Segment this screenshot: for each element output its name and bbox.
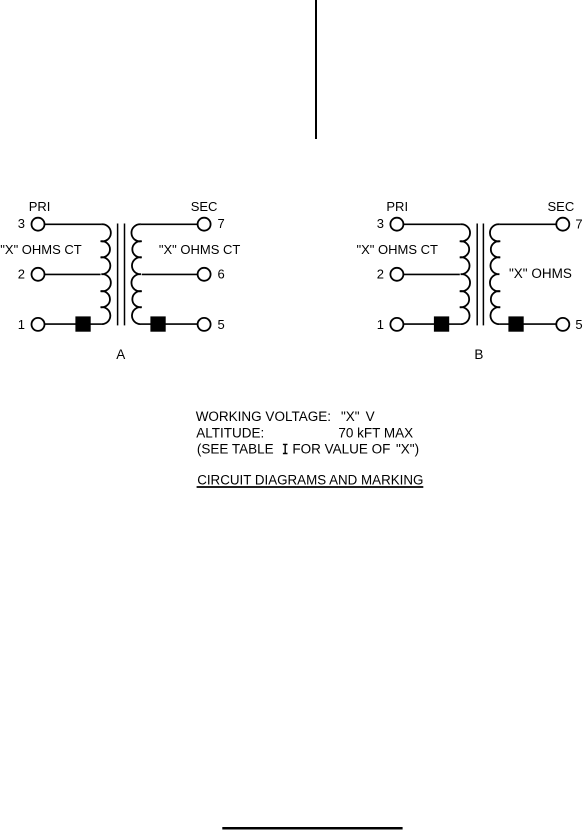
svg-text:"X" OHMS CT: "X" OHMS CT <box>357 242 439 257</box>
svg-text:PRI: PRI <box>29 199 51 214</box>
svg-text:5: 5 <box>218 317 225 332</box>
polarity mark secondary (B) <box>508 316 523 331</box>
wire pin3 to primary winding (B) <box>403 223 460 225</box>
terminal 1 (A) <box>32 318 45 331</box>
terminal 5 (A) <box>198 318 211 331</box>
polarity mark primary (A) <box>75 316 90 331</box>
core line 2 (B) <box>482 224 484 326</box>
secondary winding L2 (A) <box>131 224 141 324</box>
wire polarity mark to pin5 (A) <box>165 323 198 325</box>
terminal 1 (B) <box>390 318 403 331</box>
terminal 2 (A) <box>32 268 45 281</box>
svg-text:PRI: PRI <box>386 199 408 214</box>
wire polarity mark to primary winding (A) <box>90 323 102 325</box>
terminal 2 (B) <box>390 268 403 281</box>
wire secondary winding to polarity mark (B) <box>499 323 510 325</box>
svg-text:"X" OHMS CT: "X" OHMS CT <box>159 242 241 257</box>
terminal 3 (B) <box>390 218 403 231</box>
wire secondary winding to pin7 (A) <box>141 223 197 225</box>
svg-text:SEC: SEC <box>548 199 575 214</box>
svg-text:3: 3 <box>377 216 384 231</box>
svg-text:"X": "X" <box>341 409 360 424</box>
primary winding L1 (B) <box>460 224 470 324</box>
core line 2 (A) <box>124 224 126 326</box>
wire pin3 to primary winding (A) <box>45 223 102 225</box>
terminal 7 (B) <box>556 218 569 231</box>
secondary winding L2 (B) <box>490 224 500 324</box>
svg-text:6: 6 <box>218 267 225 282</box>
svg-text:2: 2 <box>18 267 25 282</box>
svg-text:1: 1 <box>18 317 25 332</box>
svg-text:7: 7 <box>575 217 582 232</box>
svg-text:CIRCUIT DIAGRAMS AND MARKING: CIRCUIT DIAGRAMS AND MARKING <box>197 473 423 488</box>
svg-text:"X" OHMS: "X" OHMS <box>509 266 572 281</box>
wire secondary CT to pin6 (A) <box>142 273 198 275</box>
svg-text:"X"): "X") <box>396 442 419 457</box>
svg-text:7: 7 <box>218 216 225 231</box>
svg-text:1: 1 <box>377 317 384 332</box>
svg-text:5: 5 <box>575 317 582 332</box>
svg-text:WORKING VOLTAGE:: WORKING VOLTAGE: <box>196 409 331 424</box>
polarity mark primary (B) <box>434 316 449 331</box>
title underline <box>197 486 424 488</box>
svg-text:(SEE TABLE: (SEE TABLE <box>197 442 274 457</box>
polarity mark secondary (A) <box>150 316 165 331</box>
svg-text:A: A <box>116 347 125 362</box>
core line 1 (B) <box>476 224 478 326</box>
svg-text:V: V <box>366 409 375 424</box>
wire pin2 to primary CT (B) <box>403 273 459 275</box>
wire polarity mark to pin5 (B) <box>523 323 557 325</box>
svg-text:2: 2 <box>377 267 384 282</box>
wire polarity mark to primary winding (B) <box>448 323 461 325</box>
wire pin1 to polarity mark (A) <box>45 323 78 325</box>
primary winding L1 (A) <box>101 224 111 324</box>
svg-text:"X" OHMS CT: "X" OHMS CT <box>0 242 82 257</box>
svg-text:70 kFT MAX: 70 kFT MAX <box>338 425 413 440</box>
wire secondary winding to pin7 (B) <box>499 223 556 225</box>
wire secondary winding to polarity mark (A) <box>141 323 152 325</box>
terminal 7 (A) <box>198 218 211 231</box>
svg-text:3: 3 <box>18 216 25 231</box>
svg-text:ALTITUDE:: ALTITUDE: <box>196 425 264 440</box>
svg-text:SEC: SEC <box>191 199 218 214</box>
svg-text:B: B <box>474 347 483 362</box>
core line 1 (A) <box>117 224 119 326</box>
wire bottom footer line <box>222 827 402 830</box>
wire pin2 to primary CT (A) <box>45 273 101 275</box>
wire top vertical divider line <box>315 0 317 139</box>
svg-text:FOR VALUE OF: FOR VALUE OF <box>292 442 390 457</box>
terminal 3 (A) <box>32 218 45 231</box>
terminal 5 (B) <box>556 318 569 331</box>
terminal 6 (A) <box>198 268 211 281</box>
wire pin1 to polarity mark (B) <box>403 323 435 325</box>
